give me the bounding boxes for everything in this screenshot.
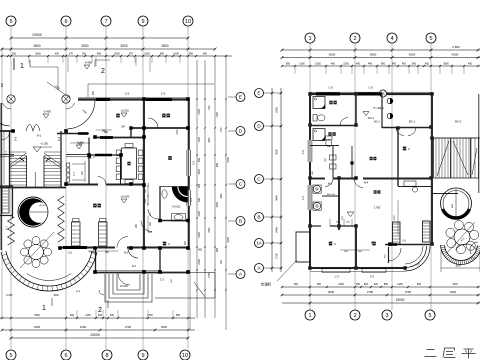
svg-text:900: 900	[216, 247, 219, 252]
leader and label hetiaolan	[261, 260, 297, 287]
svg-text:-0.450: -0.450	[6, 295, 13, 297]
svg-text:4: 4	[390, 36, 393, 42]
svg-text:2700: 2700	[198, 109, 201, 115]
svg-text:10: 10	[185, 19, 191, 25]
level marker 0.000 living	[121, 194, 130, 203]
svg-text:900: 900	[110, 314, 115, 317]
bed hatched left	[72, 219, 81, 247]
room label bed3 right	[372, 242, 375, 246]
svg-text:1050: 1050	[173, 52, 179, 55]
svg-text:4476: 4476	[452, 283, 458, 286]
svg-text:450: 450	[402, 62, 407, 65]
stair treads right flight	[44, 152, 61, 185]
stair well center line	[34, 172, 36, 187]
svg-text:6: 6	[64, 353, 67, 359]
corner arc window band bottom right plan	[405, 246, 430, 271]
svg-text:2: 2	[98, 307, 102, 314]
svg-text:2400: 2400	[209, 227, 211, 233]
living room bottom wall	[60, 248, 189, 255]
left outer wall right plan	[302, 94, 312, 268]
dimension line bottom-left row2	[1, 325, 195, 331]
door swing arc left edge	[0, 101, 11, 126]
svg-text:6: 6	[64, 19, 67, 25]
svg-text:4200: 4200	[275, 149, 279, 155]
column squares left plan	[11, 97, 190, 274]
svg-text:9: 9	[141, 19, 144, 25]
planter box outside left wall right plan	[296, 232, 310, 262]
svg-text:250: 250	[92, 90, 95, 95]
hall wall below stairs	[0, 185, 144, 188]
svg-text:3050: 3050	[81, 44, 88, 48]
svg-text:5: 5	[9, 19, 12, 25]
window C-5 right plan 2	[358, 86, 382, 95]
wall x160 lower	[159, 248, 161, 273]
wall x390 corner stub	[388, 247, 390, 263]
svg-text:1500: 1500	[114, 52, 120, 55]
svg-text:C: C	[239, 182, 243, 188]
bathroom mid wall vertical	[355, 94, 357, 126]
stair treads right plan	[436, 138, 477, 178]
svg-text:900: 900	[70, 314, 75, 317]
svg-text:4200: 4200	[221, 193, 223, 199]
bed hatched right	[99, 219, 108, 247]
room label bed2 right plan	[403, 147, 406, 151]
room label bed2	[163, 242, 166, 246]
wall y244 right plan lower with windows	[371, 241, 432, 245]
svg-text:900: 900	[364, 283, 369, 286]
svg-text:450: 450	[55, 52, 60, 55]
svg-text:2400: 2400	[198, 232, 201, 238]
sink wall interior right plan	[310, 146, 339, 179]
svg-text:M-1: M-1	[132, 265, 137, 268]
column circle grid 6	[62, 95, 70, 103]
balcony arc band bottom-left	[1, 251, 97, 297]
letter bubbles column right-plan left side	[255, 89, 283, 273]
svg-text:1500: 1500	[198, 169, 201, 175]
svg-text:B: B	[257, 215, 260, 221]
svg-text:7: 7	[104, 19, 107, 25]
window C-5 top wall 1	[96, 92, 130, 100]
svg-text:E: E	[239, 95, 242, 101]
room label living	[93, 204, 96, 208]
double door wavy symbol at entry	[26, 125, 40, 132]
grid bubbles top (left plan)	[6, 16, 193, 26]
svg-text:900: 900	[417, 283, 422, 286]
round table with chairs left balcony	[20, 232, 54, 268]
bottom bay wall left plan	[95, 270, 190, 272]
toilet symbol left plan	[172, 206, 186, 222]
zigzag curtain symbol right	[58, 196, 64, 242]
svg-text:4500: 4500	[34, 314, 40, 317]
washing machines right plan	[313, 185, 336, 210]
svg-text:MC-1: MC-1	[409, 120, 416, 124]
svg-text:2700: 2700	[275, 253, 279, 259]
svg-text:5: 5	[9, 353, 12, 359]
stair hall top wall right plan	[432, 137, 480, 139]
dimension line 23000 bottom-left	[10, 333, 190, 339]
canopy outline below plan	[155, 250, 215, 299]
wc labels right plan	[363, 108, 382, 120]
svg-text:H 0.020: H 0.020	[172, 206, 181, 209]
level marker -0.450 porch	[76, 140, 84, 149]
section cut mark 2 bottom	[98, 300, 108, 314]
door arc bottom right plan	[385, 248, 402, 261]
bath wall y155 with window	[89, 154, 121, 156]
svg-text:2.780: 2.780	[374, 206, 381, 210]
central vertical wall right plan	[338, 178, 340, 230]
svg-text:2300: 2300	[275, 107, 279, 113]
svg-text:4200: 4200	[209, 137, 211, 143]
grid lines vertical (right plan)	[310, 43, 431, 310]
door arc entry left	[2, 131, 10, 140]
svg-text:2700: 2700	[125, 325, 132, 329]
svg-text:MC-1: MC-1	[374, 122, 380, 124]
left edge outer wall	[1, 103, 4, 250]
grid bubbles top (right plan)	[305, 33, 436, 43]
svg-text:H 0.02: H 0.02	[378, 108, 385, 110]
dimension line top-right row1	[281, 45, 480, 51]
svg-text:C-1: C-1	[471, 257, 476, 260]
room interior dim lines	[72, 161, 85, 182]
svg-text:950: 950	[160, 52, 165, 55]
wall above dining with window	[95, 131, 144, 138]
svg-text:3600: 3600	[161, 44, 168, 48]
svg-text:2: 2	[101, 68, 105, 75]
svg-text:2700: 2700	[198, 259, 201, 265]
svg-text:3400: 3400	[275, 195, 279, 201]
diagonal leader 4500	[47, 82, 70, 98]
svg-text:3600: 3600	[329, 53, 336, 57]
svg-text:C: C	[257, 177, 261, 183]
wall y226 right plan	[310, 219, 356, 226]
svg-text:C-2': C-2'	[335, 275, 340, 279]
svg-text:5: 5	[428, 313, 431, 319]
stair mid wall 1	[26, 156, 28, 187]
svg-text:650: 650	[198, 157, 201, 162]
grid lines vertical (left plan)	[11, 26, 188, 349]
svg-text:1: 1	[20, 63, 24, 70]
svg-text:370: 370	[69, 52, 74, 55]
grid bubbles bottom (right plan)	[305, 310, 435, 320]
svg-text:990: 990	[97, 52, 102, 55]
svg-text:350: 350	[356, 283, 361, 286]
grid bubbles bottom (left plan)	[6, 350, 190, 360]
svg-text:1250: 1250	[85, 314, 91, 317]
wall x144 lower	[143, 185, 145, 248]
label blob bathroom2	[328, 132, 331, 136]
svg-text:500: 500	[198, 197, 201, 202]
bedroom divider wall horizontal	[130, 127, 189, 129]
svg-text:950: 950	[286, 62, 291, 65]
svg-text:850: 850	[384, 283, 389, 286]
svg-text:10: 10	[182, 353, 188, 359]
stair mid wall 2	[43, 156, 45, 187]
svg-text:M-2: M-2	[124, 252, 129, 255]
dimension line top-right row2	[281, 53, 480, 59]
door arcs terrace	[396, 128, 416, 136]
svg-text:1730: 1730	[198, 137, 201, 143]
wall x95 lower	[95, 248, 97, 273]
rail squares stack	[67, 163, 70, 182]
level marker right plan hall	[347, 206, 381, 217]
dimension line second row top-left	[1, 44, 217, 50]
svg-text:950: 950	[203, 52, 208, 55]
dimension line 23000 top-left	[10, 33, 190, 39]
svg-text:C-5: C-5	[161, 92, 166, 96]
door arcs hallway right plan	[325, 179, 363, 188]
toilet top bathroom	[313, 115, 325, 122]
svg-text:4500: 4500	[33, 44, 40, 48]
sink ellipse bathroom	[162, 190, 167, 198]
crescent spiral feature	[18, 197, 50, 227]
svg-text:23000: 23000	[90, 333, 100, 337]
svg-text:3600: 3600	[53, 294, 59, 297]
room label master bedroom blob	[374, 190, 377, 193]
svg-text:C-0: C-0	[370, 275, 375, 279]
svg-text:C-5: C-5	[193, 160, 196, 165]
svg-text:1730: 1730	[216, 112, 219, 118]
svg-text:950: 950	[189, 52, 194, 55]
svg-text:9: 9	[141, 353, 144, 359]
small wc room walls left edge	[0, 186, 13, 218]
entry wall top-left	[0, 131, 42, 138]
svg-text:C-1: C-1	[76, 289, 81, 293]
svg-text:1: 1	[308, 313, 311, 319]
balcony arc extension right edge	[456, 242, 478, 254]
svg-text:1500: 1500	[216, 202, 219, 208]
svg-text:3800: 3800	[370, 53, 377, 57]
stairwell box right plan	[434, 138, 479, 178]
round tub right plan	[441, 188, 472, 219]
witness ticks below top-right dims	[295, 66, 464, 74]
section cut mark 1 bottom	[42, 298, 52, 312]
leader polyline top-left	[30, 67, 58, 90]
small dim marks interior left plan	[70, 127, 187, 254]
svg-text:4500: 4500	[34, 325, 41, 329]
svg-text:950: 950	[176, 314, 181, 317]
svg-text:900: 900	[381, 62, 386, 65]
svg-text:840: 840	[356, 62, 361, 65]
svg-text:1790: 1790	[209, 105, 211, 111]
svg-text:2: 2	[353, 36, 356, 42]
room label bed1 blob	[168, 156, 171, 160]
stairwell left wall right plan	[431, 94, 433, 245]
svg-text:C-4': C-4'	[302, 195, 305, 200]
svg-text:C-5': C-5'	[368, 86, 374, 90]
room label speck x91	[88, 155, 91, 159]
bottom wall right plan	[310, 268, 405, 272]
svg-text:650: 650	[216, 162, 219, 167]
level marker 0.020 hall	[121, 108, 130, 117]
hallway wall right plan horizontal	[310, 179, 431, 186]
svg-text:5: 5	[429, 36, 432, 42]
terrace wall right plan with doors	[382, 120, 462, 128]
window C-5 right plan 1	[316, 86, 340, 95]
svg-text:M-5: M-5	[328, 183, 333, 186]
left edge dimension line	[1, 49, 4, 318]
leader line above top wall	[88, 84, 214, 97]
witness ticks above bottom dims	[77, 310, 173, 318]
level marker -0.450 mid	[43, 109, 51, 118]
letter bubbles column left-plan right side	[228, 93, 245, 279]
svg-text:E: E	[257, 91, 260, 97]
window C-0 frame bottom	[362, 269, 386, 279]
right plan left dimension column lines	[271, 88, 283, 272]
title text second floor plan	[425, 348, 476, 359]
porch sill wall y155	[0, 155, 88, 157]
svg-text:950: 950	[294, 283, 299, 286]
door arc M-4 bedroom2	[141, 221, 153, 235]
svg-text:1: 1	[42, 305, 46, 312]
svg-text:445: 445	[368, 62, 373, 65]
room label bedroom top-right	[162, 114, 165, 118]
dimension line bottom-right row2	[281, 290, 480, 296]
entrance door swing arc big	[66, 100, 95, 129]
svg-text:1730: 1730	[221, 127, 223, 133]
desk bedroom2	[398, 181, 432, 192]
svg-text:C-5': C-5'	[328, 86, 334, 90]
svg-text:C-6: C-6	[68, 252, 73, 255]
svg-text:1050: 1050	[80, 325, 87, 329]
door arc M-1 bay	[118, 265, 137, 285]
svg-text:C-5': C-5'	[302, 149, 305, 154]
window C-2 frame bottom	[322, 269, 350, 279]
toilet second bathroom	[326, 136, 333, 147]
svg-text:MC-0: MC-0	[455, 120, 462, 124]
column squares right plan	[308, 92, 433, 269]
svg-text:4500: 4500	[450, 290, 457, 294]
svg-text:3600: 3600	[443, 62, 449, 65]
top wall left plan	[78, 98, 189, 100]
svg-text:2: 2	[353, 313, 356, 319]
svg-text:1500: 1500	[343, 62, 349, 65]
small wall y196 right plan	[322, 195, 339, 197]
svg-text:3750: 3750	[405, 290, 412, 294]
svg-text:1A: 1A	[256, 241, 261, 246]
svg-text:3600: 3600	[328, 290, 335, 294]
entrance steps nested	[99, 274, 152, 302]
door arc bathroom right plan	[340, 118, 348, 126]
radiator left edge	[2, 188, 9, 213]
window C-5 top wall 2	[146, 92, 172, 100]
round table right balcony	[446, 221, 479, 254]
svg-text:450: 450	[468, 62, 473, 65]
svg-text:M-2: M-2	[37, 135, 42, 138]
door arc bedroom	[148, 118, 158, 128]
closet wall right plan	[350, 146, 353, 178]
svg-text:M-4: M-4	[364, 182, 369, 185]
svg-text:M-4: M-4	[148, 231, 153, 234]
svg-text:M-5: M-5	[15, 136, 18, 141]
interior dim strip y150 left plan	[136, 216, 152, 232]
dimension line bottom-right row1	[281, 283, 480, 288]
column circle on top wall right plan	[379, 90, 386, 97]
short wall x131	[129, 126, 132, 137]
svg-text:4200: 4200	[227, 157, 230, 163]
stair right wall	[60, 131, 62, 187]
svg-text:8: 8	[105, 353, 108, 359]
svg-text:WC-1: WC-1	[368, 117, 375, 120]
section cut mark 2 top	[95, 60, 110, 75]
section cut mark 1 top	[14, 58, 30, 70]
stair treads left flight	[10, 152, 27, 185]
svg-text:-0.450: -0.450	[84, 60, 92, 64]
svg-text:1: 1	[308, 36, 311, 42]
svg-text:2300: 2300	[394, 215, 396, 221]
bath wall x120	[120, 155, 122, 184]
svg-text:B: B	[239, 219, 242, 225]
svg-text:±0.000: ±0.000	[39, 205, 46, 207]
svg-text:±0.000: ±0.000	[121, 194, 130, 198]
radiator hatched right plan 1	[393, 222, 401, 244]
svg-text:3000: 3000	[120, 44, 127, 48]
svg-text:520: 520	[98, 314, 103, 317]
porch wall	[15, 134, 90, 142]
svg-text:3600: 3600	[455, 265, 461, 268]
room label bed3 left	[329, 242, 332, 246]
door arc hall	[98, 177, 106, 185]
svg-text:-0.150: -0.150	[40, 141, 48, 145]
svg-text:1300: 1300	[198, 211, 201, 217]
svg-text:2780: 2780	[367, 290, 374, 294]
svg-text:3050: 3050	[409, 53, 416, 57]
svg-text:合调栏: 合调栏	[261, 282, 272, 287]
svg-text:950: 950	[1, 82, 4, 87]
balcony arc band bottom-right plan	[441, 245, 480, 272]
svg-text:890: 890	[392, 62, 397, 65]
radiator hatched right plan 2	[423, 221, 431, 242]
svg-text:460: 460	[331, 62, 336, 65]
svg-text:570: 570	[129, 52, 134, 55]
svg-text:C-5: C-5	[125, 92, 130, 96]
corner shower black fan	[172, 187, 188, 203]
room label hall right plan	[370, 157, 373, 160]
level marker -0.450 top	[84, 60, 92, 69]
svg-text:250: 250	[12, 52, 17, 55]
level marker -0.150 stair hall	[33, 141, 52, 152]
wall y193 tub room	[432, 193, 458, 195]
svg-text:520: 520	[374, 283, 379, 286]
column circle grid 5	[7, 95, 15, 103]
dimension line 23000 bottom-right	[282, 298, 480, 304]
door arc M-2 bay	[117, 237, 138, 259]
svg-text:900: 900	[412, 62, 417, 65]
svg-text:760: 760	[82, 52, 87, 55]
zigzag curtain symbol left	[8, 217, 15, 245]
svg-text:C-2: C-2	[160, 279, 165, 282]
svg-text:2.800: 2.800	[452, 45, 460, 49]
svg-text:4200: 4200	[227, 237, 230, 243]
door arc bathroom left plan	[148, 209, 158, 219]
svg-text:3600: 3600	[35, 52, 41, 55]
svg-text:1250: 1250	[397, 283, 403, 286]
central vertical wall left plan	[143, 99, 145, 185]
svg-text:2400: 2400	[275, 227, 279, 233]
svg-text:950: 950	[317, 283, 322, 286]
svg-text:±0.020: ±0.020	[120, 284, 128, 288]
bathroom wall left plan	[160, 186, 189, 221]
svg-text:D: D	[257, 124, 261, 130]
svg-text:D: D	[239, 129, 243, 135]
kitchen wall x89	[88, 138, 90, 185]
dimension line third row top-left	[0, 52, 232, 57]
top wall right plan	[310, 92, 431, 94]
label blob bathroom1	[329, 101, 332, 105]
small dims interior right plan	[312, 157, 398, 253]
svg-text:3600: 3600	[161, 325, 168, 329]
svg-text:4500: 4500	[452, 53, 459, 57]
stair left wall	[9, 131, 11, 187]
